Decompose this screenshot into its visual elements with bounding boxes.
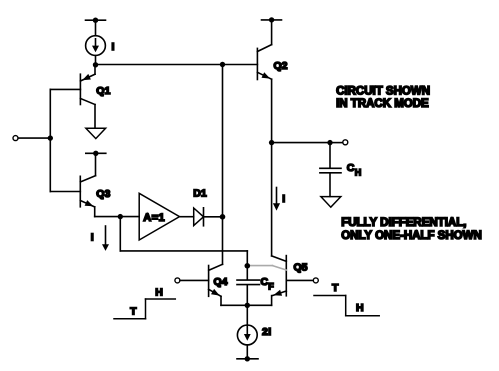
node H (junction dot) <box>245 263 251 269</box>
node B (junction dot on base wire) <box>220 62 225 67</box>
node D (junction dot at amp input branch) <box>118 214 123 219</box>
wire Q3 emitter to amp input <box>95 216 140 218</box>
svg-text:F: F <box>268 281 274 291</box>
current source I2 (2I) <box>237 305 257 359</box>
wire node H to Q5 collector (gray lead) <box>247 266 286 270</box>
wire node F to C_H / output terminal <box>272 142 330 144</box>
svg-text:T: T <box>332 282 339 294</box>
current arrow I (right) <box>273 188 280 211</box>
annotation: FULLY DIFFERENTIAL, ONLY ONE-HALF SHOWN <box>341 217 482 242</box>
output terminal (open circle) <box>343 140 348 145</box>
node F (junction dot) <box>269 140 274 145</box>
wire P1 to current source I1 <box>95 20 97 36</box>
label CH <box>347 162 362 178</box>
svg-text:C: C <box>347 162 355 174</box>
svg-text:I: I <box>282 193 285 205</box>
power rail P3 (top right) <box>262 17 282 22</box>
transistor Q1 (PNP) <box>80 65 95 128</box>
svg-text:CIRCUIT SHOWN: CIRCUIT SHOWN <box>336 85 430 97</box>
transistor Q3 (NPN) <box>80 176 95 217</box>
emitter rail Q4/Q5 <box>221 304 272 306</box>
label CF <box>261 276 275 291</box>
diode D1 <box>194 208 204 226</box>
svg-text:C: C <box>261 276 269 288</box>
wire Q1 base / Q3 base vertical <box>50 89 80 191</box>
Q4 base wire and terminal <box>175 278 209 283</box>
wire node B down through node E to Q4 collector <box>209 65 223 271</box>
power rail P1 (top left) <box>86 18 106 23</box>
current arrow I (left) <box>102 226 109 251</box>
svg-text:Q5: Q5 <box>294 261 308 273</box>
wire P2 to Q3 collector <box>95 153 97 175</box>
node E (junction dot) <box>220 214 226 220</box>
transistor Q4 (NPN switch) <box>209 266 221 306</box>
input terminal (open circle, left) <box>13 136 18 141</box>
wire input to node C <box>18 137 50 139</box>
capacitor CF <box>237 266 260 306</box>
svg-text:T: T <box>130 306 137 318</box>
svg-text:H: H <box>155 287 163 299</box>
wire Q2 emitter down to node F <box>271 79 273 142</box>
node A (junction dot) <box>93 62 98 67</box>
ground (below Q1) <box>86 128 106 138</box>
waveform right (T to H step) <box>314 296 379 316</box>
wire node A to Q2 base <box>96 64 258 66</box>
node G (junction dot) <box>327 140 332 145</box>
op-amp A1 (A=1 buffer) <box>139 193 179 240</box>
svg-text:FULLY DIFFERENTIAL,: FULLY DIFFERENTIAL, <box>341 217 466 229</box>
svg-text:Q4: Q4 <box>214 276 228 288</box>
wire D1 cathode to node E <box>204 216 223 218</box>
transistor Q5 (NPN switch) <box>272 256 287 306</box>
waveform left (T to H step) <box>114 299 175 319</box>
svg-text:I: I <box>112 41 115 53</box>
power rail P2 (mid left) <box>86 151 106 156</box>
svg-text:2I: 2I <box>262 326 272 338</box>
current source I1 (I) <box>86 36 106 56</box>
node C (junction dot) <box>48 135 53 140</box>
node J (junction dot) <box>245 303 250 308</box>
svg-text:IN TRACK MODE: IN TRACK MODE <box>336 98 429 110</box>
svg-text:Q3: Q3 <box>96 188 110 200</box>
ground (below CH) <box>321 197 341 208</box>
svg-text:ONLY ONE-HALF SHOWN: ONLY ONE-HALF SHOWN <box>341 230 482 242</box>
wire amp output to D1 <box>180 216 194 218</box>
transistor Q2 (NPN) <box>257 45 271 80</box>
svg-text:D1: D1 <box>193 188 207 200</box>
wire Q2 emitter node down to Q5 collector <box>272 143 287 262</box>
svg-text:H: H <box>355 168 362 178</box>
wire I1 to node A <box>95 56 97 66</box>
Q5 base wire and terminal <box>286 278 318 283</box>
annotation: CIRCUIT SHOWN IN TRACK MODE <box>336 85 430 110</box>
svg-text:A=1: A=1 <box>143 212 165 224</box>
wire P3 to Q2 collector <box>271 20 273 45</box>
svg-text:H: H <box>356 302 364 314</box>
svg-text:I: I <box>91 232 94 244</box>
power rail P4 (bottom) <box>237 356 258 361</box>
svg-text:Q2: Q2 <box>274 60 288 72</box>
capacitor CH <box>320 143 341 197</box>
wire node D down and right (feedback) <box>120 217 247 266</box>
svg-text:Q1: Q1 <box>96 85 110 97</box>
